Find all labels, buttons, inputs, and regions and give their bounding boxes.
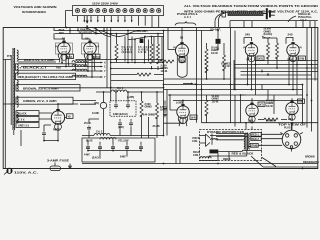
wire: AF1 stage frame (168, 28, 235, 90)
interstage winding humps (72, 61, 87, 63)
wire: transformer bottom lead (14, 130, 21, 146)
wire: cap to bottom (44, 132, 58, 141)
tube V5 245 upper left (245, 33, 264, 62)
power transformer P.T. (7, 48, 18, 130)
resistor R-field (156, 103, 168, 119)
svg-text:144 OHMS: 144 OHMS (143, 114, 155, 117)
wire: C arrow out (183, 83, 197, 86)
svg-text:(V4): (V4) (191, 117, 196, 120)
label: brown / red-white leads (303, 156, 319, 165)
svg-text:1/2-W.: 1/2-W. (138, 51, 147, 54)
svg-text:(0): (0) (173, 47, 176, 49)
svg-text:8-MF.: 8-MF. (120, 156, 126, 159)
svg-text:245: 245 (248, 119, 253, 123)
tube V6 245 upper right (287, 33, 306, 62)
svg-text:.25-MF.: .25-MF. (209, 29, 221, 32)
svg-text:COIL: COIL (193, 154, 199, 157)
capacitor 1300 (129, 121, 133, 127)
svg-text:245: 245 (288, 117, 293, 121)
wire: terminal drops (78, 16, 159, 28)
winding box: yellow 5V (16, 117, 39, 122)
fuse F1 3-amp (47, 160, 70, 171)
terminal 5 (103, 9, 107, 13)
resistor R-divider tall (157, 44, 160, 64)
svg-text:RECT.: RECT. (53, 129, 60, 132)
svg-text:C: C (104, 66, 106, 69)
wire: right bus group (234, 21, 318, 90)
svg-text:56: 56 (85, 37, 89, 41)
terminal 6 (109, 9, 113, 13)
resistor R-cathode horizontal (160, 60, 174, 73)
svg-text:GREY 2.5: GREY 2.5 (18, 124, 30, 127)
svg-text:110V, A.C.: 110V, A.C. (14, 171, 38, 175)
cord strain connector (222, 11, 225, 17)
wire: grid caps of 56s (54, 33, 90, 42)
svg-text:BLUE: BLUE (86, 140, 93, 143)
svg-text:+ BLACK,CT: + BLACK,CT (19, 67, 48, 70)
wire: lower mid drops (111, 58, 164, 81)
svg-text:RED,(EACH)CT | YELLOW,2.7V,8.4: RED,(EACH)CT | YELLOW,2.7V,8.4AMP (18, 76, 74, 79)
note: measurement conditions (184, 4, 318, 13)
svg-text:1/2-W.: 1/2-W. (211, 52, 218, 55)
svg-text:A. F. 1: A. F. 1 (184, 16, 192, 19)
rectifier tube 80 (51, 109, 73, 132)
svg-text:3-AMP. FUSE: 3-AMP. FUSE (47, 160, 70, 163)
svg-text:(0): (0) (243, 47, 246, 49)
wire: center bus lines (54, 28, 213, 34)
wire: tube pin squiggles (58, 54, 188, 127)
wire: left border taps (3, 60, 16, 105)
svg-text:4-MF.: 4-MF. (84, 154, 90, 157)
svg-text:8-MF.(EACH): 8-MF.(EACH) (113, 113, 128, 116)
svg-text:BROWN: BROWN (266, 120, 276, 123)
svg-text:1/2-W.: 1/2-W. (266, 105, 273, 108)
wire: mid vertical risers (107, 28, 164, 88)
svg-text:REVERSER: REVERSER (79, 32, 93, 35)
svg-text:(V6): (V6) (300, 58, 305, 61)
svg-text:245: 245 (245, 33, 250, 37)
power cord (hatched) (228, 12, 263, 16)
tube V3 56 push-pull AF1 (upper) (175, 13, 199, 77)
label: 50,000 ohms half watt (212, 95, 220, 103)
label box: red-1 speaker lead (251, 132, 261, 136)
svg-text:BLACK: BLACK (18, 112, 27, 115)
capacitor 0.840 (118, 121, 122, 127)
winding box: black CT / red (16, 64, 76, 70)
wire: filament pair (18, 60, 60, 63)
tube V2 56 phase reverser (79, 29, 100, 61)
wire: strip left lead (66, 11, 73, 28)
svg-text:RED & BLACK: RED & BLACK (232, 153, 254, 156)
winding box: brown 2.5V (16, 85, 80, 91)
tube V8 245 lower right (286, 99, 305, 121)
svg-text:1/2-W.: 1/2-W. (223, 65, 230, 68)
svg-text:VOLTAGES ARE SHOWN: VOLTAGES ARE SHOWN (14, 5, 57, 9)
svg-text:RED-2: RED-2 (252, 138, 260, 141)
wire: right-side verticals (246, 28, 318, 132)
terminal 10 (136, 9, 140, 13)
svg-text:(0): (0) (299, 47, 302, 49)
svg-text:RED&WHITE: RED&WHITE (303, 161, 319, 164)
resistor R-bleeder 2500 ohms (140, 101, 155, 117)
svg-text:RED-3: RED-3 (223, 158, 231, 161)
label: 50,000 ohms (each) (262, 28, 272, 38)
terminal 12 (150, 9, 154, 13)
wire: lower 245 connections (241, 95, 319, 123)
arrowheads on tap leads (83, 20, 132, 22)
svg-text:RED-1: RED-1 (252, 133, 260, 136)
resistor R-grid 245 left (267, 43, 270, 59)
svg-text:(280): (280) (118, 126, 124, 129)
wire: grid resistor leads (262, 38, 277, 68)
resistor R-plate V4 (205, 100, 208, 116)
winding box: green 24V (16, 97, 73, 104)
resistor R-bias 35,000 ohms (150, 44, 153, 64)
wire: bottom bus (60, 164, 318, 169)
svg-text:1/2-W.: 1/2-W. (161, 70, 168, 73)
field coil (193, 151, 211, 158)
speaker plug (top view) (266, 120, 307, 152)
svg-text:TOP VIEW OF: TOP VIEW OF (278, 124, 307, 127)
resistor R 35,000 ohms (205, 47, 219, 74)
terminal 13 (157, 9, 161, 13)
note: voltages shown in parentheses (14, 5, 57, 14)
attachment plug P1 (263, 8, 275, 19)
capacitor .30-MF (black) (136, 30, 148, 43)
svg-text:YELLOW: YELLOW (118, 140, 129, 143)
connector block (black) (210, 150, 219, 154)
tube V4 56 push-pull AF1 (lower) (176, 102, 197, 124)
wire: X C Y output leads (21, 61, 106, 80)
wire: rectifier leads (39, 104, 78, 132)
terminal strip TB1 (73, 6, 164, 16)
svg-text:ALL VOLTAGE READINGS TAKEN FRO: ALL VOLTAGE READINGS TAKEN FROM VARIOUS … (184, 4, 318, 8)
wire: tube V1 V2 cathode drops (62, 54, 92, 77)
svg-text:(0): (0) (97, 46, 100, 48)
terminal 11 (143, 9, 147, 13)
output transformer T2 (244, 133, 250, 151)
capacitor C-bypass with ground (163, 101, 167, 117)
voltage selector arrow (86, 16, 88, 22)
wire: cord tail into chassis (215, 13, 228, 28)
winding box: grey (16, 123, 39, 128)
svg-text:(V7): (V7) (259, 104, 264, 107)
wire: left mid connections (39, 60, 164, 105)
voice coil (192, 134, 218, 147)
svg-text:(16.5): (16.5) (287, 59, 293, 61)
choke CH.1 (96, 87, 164, 92)
svg-text:25-MF.: 25-MF. (84, 122, 92, 125)
label box: red-2 lead (251, 137, 261, 141)
svg-text:245: 245 (287, 33, 292, 37)
wire: left return bus (4, 60, 6, 169)
terminal 3 (89, 9, 93, 13)
svg-text:Y. 5 V.: Y. 5 V. (18, 118, 25, 121)
ground symbol near fuse (68, 164, 72, 169)
svg-text:1/2-W.: 1/2-W. (212, 100, 219, 103)
label: parallel push-pull A.F.2 (288, 13, 312, 22)
svg-text:(+280): (+280) (176, 102, 183, 105)
svg-text:COIL: COIL (192, 140, 198, 143)
terminal 4 (96, 9, 100, 13)
svg-text:(V5): (V5) (258, 58, 263, 61)
resistor R-grid 50,000 ohms (115, 44, 118, 60)
svg-text:IN PARENTHESES: IN PARENTHESES (22, 10, 46, 14)
winding box: black primary (16, 111, 39, 116)
wire: 245 upper cathode drops (248, 55, 298, 95)
svg-text:PLUG: PLUG (284, 127, 291, 130)
choke CH.2 (82, 131, 164, 136)
chassis border (3, 28, 318, 169)
dynamic reproducer (speaker) dashed box (200, 130, 262, 161)
wire: V4 plate circuit verticals (197, 90, 247, 127)
capacitor C-buffer (42, 131, 46, 137)
svg-text:CH. 2: CH. 2 (96, 131, 103, 134)
terminal 7 (116, 9, 120, 13)
svg-text:(V3): (V3) (180, 59, 185, 62)
wire: 245 grid leads (244, 38, 293, 44)
capacitor bank 8-MF each (110, 101, 136, 116)
capacitor .25-MF coupling (black) (209, 29, 221, 49)
svg-text:(16.5): (16.5) (246, 59, 252, 61)
resistor R-grid-leak horizontal (264, 118, 278, 121)
label: 50,000 ohms 1/2W center (266, 100, 274, 108)
AC wall plug (4, 168, 12, 174)
label box: tan lead (250, 143, 258, 147)
terminal 2 (82, 9, 86, 13)
winding box: HV secondary (16, 73, 76, 79)
wire: right upper bus (230, 21, 318, 28)
svg-text:.30-MF.: .30-MF. (136, 30, 148, 33)
svg-text:OHMS: OHMS (145, 106, 153, 109)
wire: mid-bottom verticals (89, 63, 180, 164)
filter capacitor block (82, 138, 155, 163)
terminal 8 (123, 9, 127, 13)
wire: reproducer hookup (199, 123, 318, 167)
resistor R-grid 245 right (276, 43, 279, 59)
svg-text:10-MF.: 10-MF. (92, 112, 100, 115)
svg-text:(0): (0) (55, 46, 58, 48)
svg-text:RED: RED (56, 67, 61, 70)
svg-text:(EACH): (EACH) (264, 33, 273, 36)
terminal 1 (75, 9, 79, 13)
tube V7 245 lower left (246, 102, 265, 123)
svg-text:GREEN, 24 V., 2 AMP.: GREEN, 24 V., 2 AMP. (23, 100, 57, 103)
wire: AF1 lower tube leads (164, 95, 191, 123)
tube V1 56 bias detector (56, 29, 74, 60)
resistor R 0.1-meg (221, 55, 232, 71)
svg-text:BROWN: BROWN (305, 156, 315, 159)
label: tube voltages (55, 46, 302, 61)
svg-text:.25-MF.: .25-MF. (152, 125, 160, 128)
wire: S-curve routing (84, 28, 164, 40)
svg-text:(EACH): (EACH) (92, 157, 101, 160)
svg-text:(TAN): (TAN) (251, 144, 258, 147)
meter M1 (94, 102, 107, 109)
wire: reproducer internal rows (212, 134, 248, 145)
terminal 9 (130, 9, 134, 13)
capacitor 25-MF (84, 122, 92, 131)
wire: AF1 horizontals (164, 79, 304, 101)
svg-text:110V 220V 240V: 110V 220V 240V (92, 2, 118, 6)
svg-text:(EACH): (EACH) (122, 51, 132, 54)
resistor R-hum horizontal (137, 73, 151, 76)
